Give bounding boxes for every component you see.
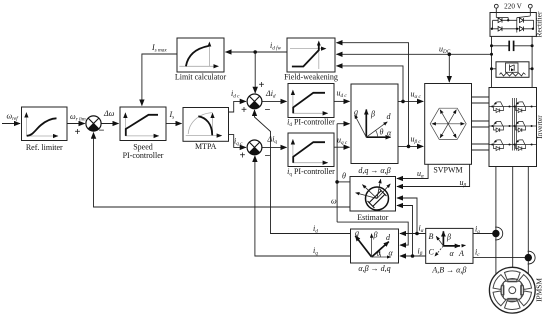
svg-text:d: d [387,112,392,121]
svg-text:Field-weakening: Field-weakening [284,73,338,82]
svg-text:Ref. limiter: Ref. limiter [26,143,63,152]
svg-text:d,q → α,β: d,q → α,β [358,166,390,175]
svg-text:+: + [259,80,265,91]
svg-text:α: α [450,249,455,258]
svg-text:uq c: uq c [337,136,348,147]
svg-text:iq PI-controller: iq PI-controller [287,167,335,178]
svg-text:Estimator: Estimator [357,213,388,222]
svg-text:iq c: iq c [234,137,243,148]
svg-text:A,B → α,β: A,B → α,β [431,266,466,275]
svg-text:A: A [458,249,464,258]
svg-text:−: − [99,126,105,137]
svg-text:IPMSM: IPMSM [535,278,544,302]
svg-text:id: id [313,224,318,235]
svg-text:Δid: Δid [265,89,276,100]
svg-text:PI-controller: PI-controller [123,151,164,160]
svg-text:id c: id c [231,89,240,100]
svg-text:B: B [429,232,434,241]
svg-text:β: β [446,233,451,242]
svg-text:220 V: 220 V [504,3,522,11]
svg-text:uDC: uDC [439,45,451,56]
svg-text:iα: iα [419,224,424,235]
svg-text:Inverter: Inverter [535,115,544,139]
svg-text:MTPA: MTPA [195,142,217,151]
svg-text:id fw: id fw [270,41,282,52]
svg-text:−: − [265,151,271,162]
svg-text:θ: θ [342,172,346,181]
svg-text:d: d [386,233,391,242]
svg-text:α,β → d,q: α,β → d,q [358,264,390,273]
svg-text:Is max: Is max [151,43,167,54]
svg-text:−: − [265,105,271,116]
svg-text:θ: θ [380,128,384,137]
svg-text:Rectifier: Rectifier [535,11,544,37]
svg-text:+: + [241,105,247,116]
svg-text:α: α [387,129,392,138]
svg-text:SVPWM: SVPWM [433,166,462,175]
svg-text:uβ c: uβ c [411,135,422,146]
svg-text:+: + [240,150,246,161]
svg-text:iβ: iβ [418,247,423,258]
svg-text:iq: iq [313,246,318,257]
svg-text:ω: ω [331,197,337,206]
svg-text:α: α [389,249,394,258]
svg-text:uβ: uβ [460,178,467,189]
svg-text:uα: uα [417,169,424,180]
svg-text:q: q [355,229,359,238]
svg-text:ωref: ωref [7,112,20,123]
svg-text:q: q [354,108,358,117]
svg-text:id PI-controller: id PI-controller [287,118,335,129]
svg-text:ia: ia [475,225,480,236]
svg-text:+: + [75,127,81,138]
svg-text:β: β [370,110,375,119]
svg-text:Is: Is [169,110,175,121]
svg-text:uα c: uα c [411,90,422,101]
svg-text:ωr lim: ωr lim [70,112,86,123]
svg-text:Δiq: Δiq [267,135,278,146]
svg-text:β: β [373,231,378,240]
svg-text:Δω: Δω [103,109,115,118]
svg-text:C: C [429,248,435,257]
svg-text:ud c: ud c [337,89,348,100]
svg-text:θ: θ [377,249,381,258]
svg-text:Limit calculator: Limit calculator [175,73,227,82]
svg-text:ic: ic [475,248,480,259]
